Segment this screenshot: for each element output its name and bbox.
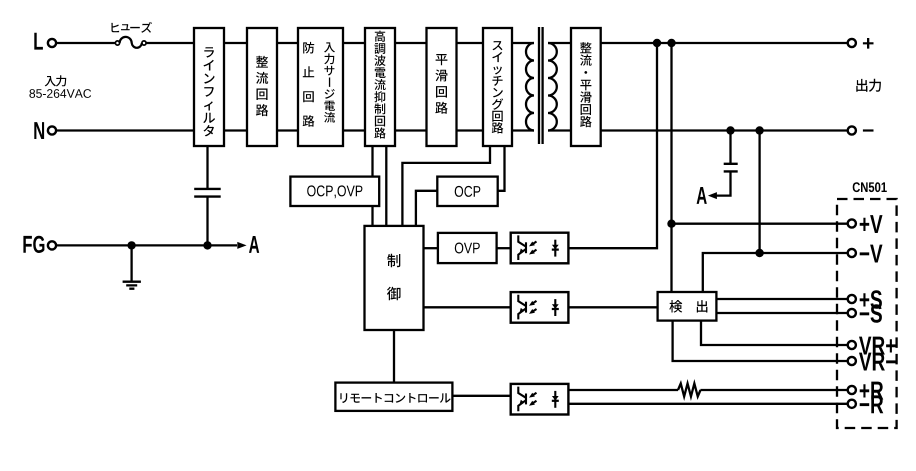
wire C1 to FG rail — [206, 197, 208, 246]
wire PC3 to resistor (+R) — [568, 389, 678, 391]
ground — [123, 245, 141, 288]
block switching スイッチング回路 — [483, 28, 512, 146]
wire - rail to -V line — [758, 131, 760, 254]
label 入力 85-264VAC — [29, 75, 91, 98]
block inrush surge prevention 入力サージ電流防止回路 — [298, 28, 343, 146]
wire transformer to output rectifier — [548, 43, 571, 131]
block remote control リモートコントロール — [335, 383, 452, 411]
node A label (right) — [697, 187, 707, 204]
terminal N — [34, 122, 56, 139]
wire OVP to photocoupler PC1 — [497, 247, 511, 249]
wire - rail to C2 — [729, 131, 731, 164]
wire detector to VR- — [673, 321, 848, 361]
wire switching to transformer — [512, 43, 534, 131]
wire L to fuse — [56, 42, 115, 44]
wire PC2 to detector — [568, 306, 657, 308]
block OVP — [438, 233, 497, 263]
wire resistor to +R terminal — [700, 389, 847, 391]
photocoupler PC2 — [511, 292, 569, 323]
junction dot FG-C1 — [203, 241, 211, 249]
wire control to remote control block — [393, 330, 395, 383]
block rectifier 整流回路 — [247, 28, 277, 146]
photocoupler PC3 — [511, 384, 569, 415]
wire OCP,OVP to control — [371, 206, 373, 226]
block output rectifier-smoothing 整流・平滑回路 — [571, 28, 601, 146]
wire PC1 to +V rail — [568, 43, 657, 248]
transformer T1 — [526, 27, 557, 144]
label 出力 — [856, 79, 881, 92]
terminal + output — [848, 38, 874, 49]
wire C2 to node A arrow — [717, 171, 731, 195]
block detector 検出 — [658, 292, 717, 321]
junction dot -V line — [755, 249, 763, 257]
block line filter ラインフィルタ — [194, 28, 224, 146]
block OCP,OVP — [290, 177, 379, 206]
junction dot + rail/671 — [667, 39, 675, 47]
terminal +V — [848, 215, 883, 233]
wire control to photocoupler PC2 — [424, 306, 511, 308]
junction dot - rail/759 — [755, 126, 763, 134]
junction dot PC1/+ rail — [653, 39, 661, 47]
wire harmonic block to control — [385, 146, 387, 226]
wire N to line filter — [56, 129, 194, 131]
wire -V line to detector — [703, 253, 848, 292]
junction dot - rail/C2 — [726, 126, 734, 134]
wire line filter to C1 — [206, 146, 208, 189]
wire remote control to PC3 — [452, 395, 510, 397]
wire detector to -S — [716, 312, 847, 314]
wires between input blocks — [224, 43, 483, 131]
label ヒューズ — [111, 22, 151, 33]
block harmonic current suppression 高調波電流抑制回路 — [365, 28, 395, 146]
terminal FG — [23, 236, 56, 253]
wire switching to OCP — [498, 146, 505, 191]
wire FG rail — [56, 244, 237, 246]
wire detector to +S — [716, 298, 847, 300]
terminal L — [34, 33, 56, 50]
terminal VR- — [848, 353, 896, 371]
terminal +S — [848, 290, 882, 309]
wire detector to VR+ — [701, 321, 848, 345]
block OCP — [437, 177, 497, 206]
terminal -R — [848, 395, 884, 413]
capacitor C1 — [194, 189, 221, 197]
wire switching to control — [402, 146, 490, 226]
wire fuse to line filter — [146, 42, 194, 44]
fuse F1 — [115, 37, 146, 48]
block smoothing 平滑回路 — [427, 28, 457, 146]
photocoupler PC1 — [511, 233, 569, 264]
wire control to OVP — [424, 247, 438, 249]
node A label (left) — [249, 236, 259, 253]
junction dot +V line — [667, 220, 675, 228]
terminal -V — [848, 245, 883, 263]
wire PC3 to -R terminal — [568, 403, 847, 405]
terminal -S — [848, 304, 882, 323]
wire - output rail — [601, 129, 848, 131]
wire + rail to +V line to detector — [670, 43, 672, 292]
connector CN501 dashed box — [837, 199, 897, 428]
terminal +R — [848, 382, 884, 400]
capacitor C2 — [724, 164, 738, 172]
wire OCP to control — [416, 191, 437, 226]
wire +V line — [672, 223, 848, 225]
arrow to node A (FG rail) — [237, 242, 246, 249]
wire harmonic block to OCP,OVP — [371, 146, 373, 177]
resistor R1 — [678, 384, 701, 397]
label CN501 — [853, 182, 887, 192]
terminal VR+ — [848, 337, 896, 355]
junction dot FG-ground — [127, 241, 135, 249]
terminal - output — [848, 126, 874, 134]
wire + output rail — [601, 42, 848, 44]
arrow to node A (C2) — [708, 192, 717, 199]
block control 制御 — [365, 226, 424, 330]
